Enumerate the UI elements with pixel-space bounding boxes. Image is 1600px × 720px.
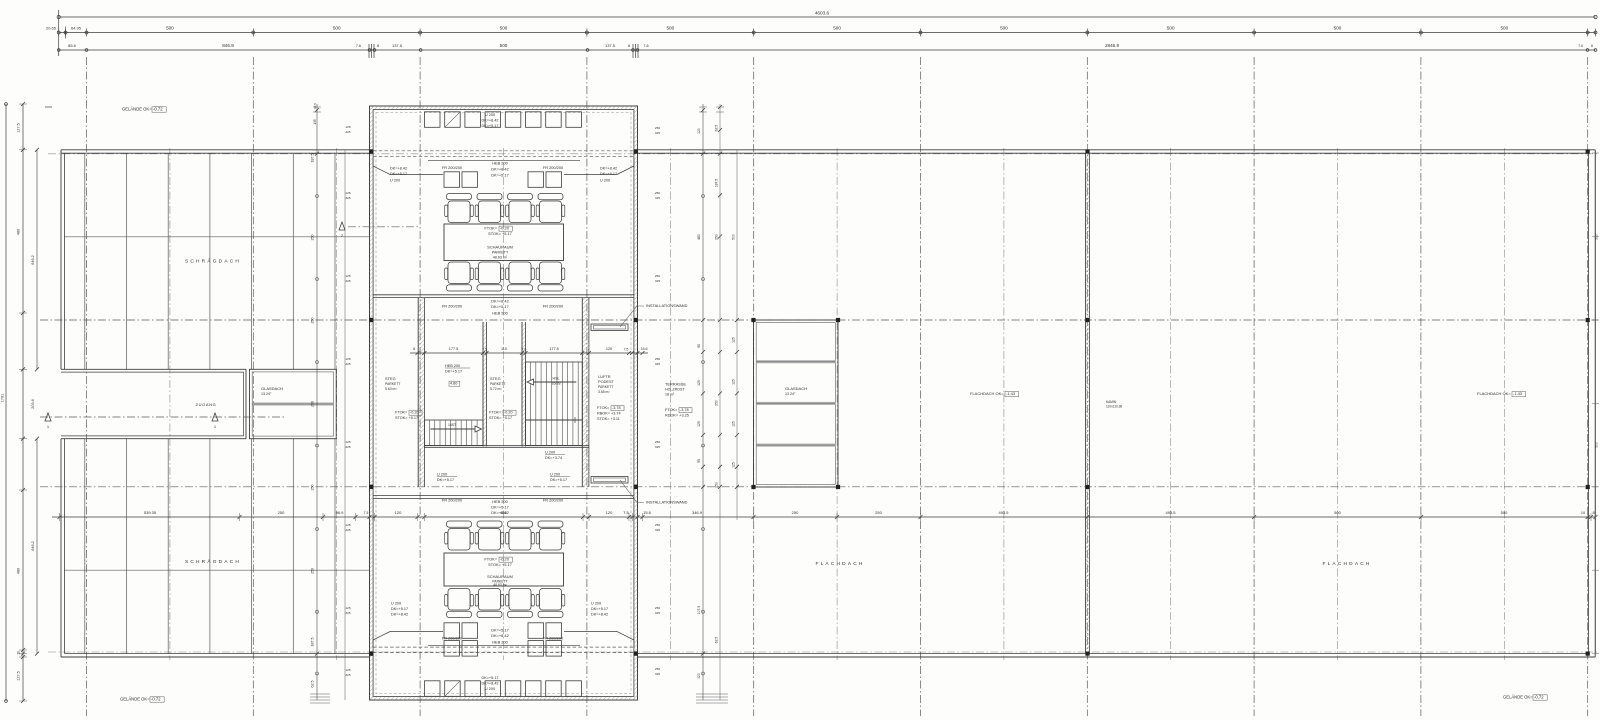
svg-text:SCHAURAUM: SCHAURAUM	[487, 245, 513, 250]
svg-text:-1.43: -1.43	[1513, 391, 1523, 396]
svg-text:7.6: 7.6	[1578, 44, 1583, 48]
svg-text:500: 500	[500, 26, 508, 31]
svg-text:325: 325	[655, 131, 660, 135]
svg-text:250: 250	[655, 606, 660, 610]
svg-text:125: 125	[697, 380, 701, 386]
svg-text:DK=+8.42: DK=+8.42	[491, 299, 509, 304]
svg-text:TERRASSE: TERRASSE	[665, 382, 686, 387]
svg-text:GLASDACH: GLASDACH	[261, 386, 283, 391]
svg-text:125: 125	[345, 125, 350, 129]
svg-text:62.5: 62.5	[313, 103, 317, 109]
svg-text:250: 250	[655, 274, 660, 278]
svg-text:177.5: 177.5	[449, 347, 459, 351]
svg-text:250: 250	[311, 318, 315, 324]
svg-text:DK=+5.17: DK=+5.17	[491, 505, 509, 510]
svg-text:325: 325	[655, 279, 660, 283]
svg-text:250: 250	[311, 568, 315, 574]
svg-text:3.65 m²: 3.65 m²	[598, 390, 610, 394]
svg-text:FR 200/200: FR 200/200	[543, 498, 564, 503]
svg-text:-0.20: -0.20	[500, 557, 510, 562]
svg-text:HOLZROST: HOLZROST	[665, 388, 685, 392]
svg-text:PARKETT: PARKETT	[492, 251, 509, 255]
svg-text:203.6: 203.6	[31, 399, 35, 409]
svg-text:DK=+3.74: DK=+3.74	[545, 456, 562, 460]
svg-text:500: 500	[333, 26, 341, 31]
svg-text:8: 8	[413, 347, 415, 351]
svg-text:8: 8	[628, 44, 630, 48]
svg-text:125: 125	[732, 462, 736, 468]
svg-text:120: 120	[697, 128, 701, 134]
svg-text:-0.20: -0.20	[500, 226, 510, 231]
svg-text:STEG: STEG	[385, 376, 396, 381]
svg-text:GELÄNDE OK=: GELÄNDE OK=	[1503, 695, 1533, 700]
svg-text:HEB 200: HEB 200	[492, 161, 508, 166]
svg-text:FLACHDACH: FLACHDACH	[1322, 561, 1371, 567]
svg-text:FR 200/200: FR 200/200	[442, 498, 463, 503]
svg-text:14ST: 14ST	[448, 423, 456, 427]
svg-text:FLACHDACH: FLACHDACH	[815, 561, 864, 567]
svg-text:DK=+8.42: DK=+8.42	[481, 119, 498, 123]
svg-text:325: 325	[655, 196, 660, 200]
svg-text:HEB 200: HEB 200	[492, 311, 508, 316]
svg-text:4.80: 4.80	[450, 382, 457, 386]
svg-text:187.5: 187.5	[311, 638, 315, 647]
svg-text:539.35: 539.35	[144, 510, 157, 515]
svg-text:FTOK=: FTOK=	[597, 406, 610, 410]
svg-text:62.5: 62.5	[715, 637, 719, 644]
svg-text:PODEST: PODEST	[598, 379, 615, 384]
svg-text:STEG: STEG	[490, 376, 501, 381]
svg-text:125: 125	[732, 379, 736, 385]
svg-text:110: 110	[501, 347, 507, 351]
svg-text:125: 125	[345, 357, 350, 361]
svg-text:DK=+8.42: DK=+8.42	[491, 167, 509, 172]
svg-text:U 200: U 200	[391, 602, 401, 606]
svg-text:500: 500	[666, 26, 674, 31]
svg-text:DK=+5.17: DK=+5.17	[391, 607, 408, 611]
svg-text:135: 135	[313, 119, 317, 125]
svg-text:500: 500	[1501, 510, 1508, 515]
svg-text:DK=+5.17: DK=+5.17	[390, 172, 407, 176]
svg-text:GELÄNDE OK=: GELÄNDE OK=	[120, 697, 150, 702]
svg-text:325: 325	[345, 673, 350, 677]
svg-text:500: 500	[1334, 510, 1341, 515]
svg-text:DK=+5.17: DK=+5.17	[491, 173, 509, 178]
svg-text:137.5: 137.5	[605, 43, 616, 48]
svg-text:FLACHDACH OK=: FLACHDACH OK=	[1477, 391, 1511, 396]
svg-text:FR 200/200: FR 200/200	[543, 636, 564, 641]
svg-text:480: 480	[697, 234, 701, 240]
svg-text:FR 200/200: FR 200/200	[543, 165, 564, 170]
svg-text:120: 120	[395, 510, 402, 515]
svg-text:DK=+5.17: DK=+5.17	[491, 628, 509, 633]
svg-text:137.5: 137.5	[392, 43, 403, 48]
svg-text:500: 500	[500, 43, 508, 48]
svg-text:62.5: 62.5	[715, 125, 719, 132]
svg-text:DK=+5.17: DK=+5.17	[445, 370, 462, 374]
svg-text:15.6: 15.6	[641, 347, 648, 351]
svg-text:500: 500	[1334, 26, 1342, 31]
svg-text:325: 325	[655, 611, 660, 615]
svg-text:325: 325	[655, 362, 660, 366]
svg-text:96.9: 96.9	[336, 510, 345, 515]
svg-text:107.5: 107.5	[697, 606, 701, 615]
svg-text:127.5: 127.5	[17, 671, 21, 681]
svg-text:7.5: 7.5	[522, 348, 527, 352]
svg-text:KAMIN: KAMIN	[1106, 400, 1117, 404]
svg-text:U 200: U 200	[485, 687, 495, 691]
svg-text:HEB 200: HEB 200	[445, 364, 460, 368]
svg-text:FTOK=: FTOK=	[484, 226, 497, 231]
svg-text:325: 325	[345, 196, 350, 200]
svg-text:250: 250	[655, 191, 660, 195]
svg-text:62.5: 62.5	[311, 681, 315, 688]
svg-text:846.9: 846.9	[222, 43, 234, 48]
svg-text:125: 125	[345, 668, 350, 672]
svg-text:-0.20: -0.20	[410, 411, 419, 415]
svg-text:250: 250	[655, 357, 660, 361]
svg-text:493.5: 493.5	[1165, 510, 1176, 515]
svg-text:500: 500	[732, 234, 736, 240]
svg-text:250: 250	[311, 235, 315, 241]
svg-text:325: 325	[345, 130, 350, 134]
svg-text:480: 480	[500, 510, 507, 515]
svg-text:13.24°: 13.24°	[785, 392, 796, 396]
svg-text:STOK= +5.17: STOK= +5.17	[488, 562, 512, 567]
svg-text:125: 125	[345, 440, 350, 444]
svg-text:SCHRÄGDACH: SCHRÄGDACH	[185, 558, 241, 565]
svg-text:INSTALLATIONSWAND: INSTALLATIONSWAND	[646, 500, 688, 505]
svg-text:U 200: U 200	[591, 602, 601, 606]
svg-text:7.5: 7.5	[624, 348, 629, 352]
svg-text:177.5: 177.5	[549, 347, 559, 351]
svg-text:GLASDACH: GLASDACH	[785, 386, 807, 391]
svg-text:8: 8	[377, 44, 379, 48]
svg-text:120: 120	[606, 510, 613, 515]
svg-text:500: 500	[1595, 234, 1599, 240]
svg-text:SCHRÄGDACH: SCHRÄGDACH	[185, 258, 241, 265]
svg-text:127.5: 127.5	[17, 123, 21, 133]
svg-text:120: 120	[697, 673, 701, 679]
svg-text:120: 120	[606, 347, 612, 351]
svg-text:RBOK= +3.74: RBOK= +3.74	[597, 412, 621, 416]
svg-text:500: 500	[1000, 26, 1008, 31]
svg-text:480: 480	[17, 568, 21, 574]
svg-text:325: 325	[345, 528, 350, 532]
svg-text:250: 250	[311, 485, 315, 491]
svg-text:500: 500	[833, 26, 841, 31]
svg-text:-0.72: -0.72	[153, 107, 163, 112]
svg-text:10: 10	[17, 651, 21, 655]
svg-text:500: 500	[1595, 442, 1599, 448]
svg-text:325: 325	[345, 611, 350, 615]
svg-text:PARKETT: PARKETT	[490, 382, 505, 386]
svg-text:FLACHDACH OK=: FLACHDACH OK=	[970, 391, 1004, 396]
svg-text:250: 250	[715, 234, 719, 240]
svg-text:U 200: U 200	[550, 473, 560, 477]
svg-text:1791: 1791	[1, 394, 5, 402]
svg-text:5.72 m²: 5.72 m²	[490, 387, 502, 391]
svg-text:PARKETT: PARKETT	[598, 385, 613, 389]
svg-text:7.6: 7.6	[643, 44, 648, 48]
svg-text:DK=+5.17: DK=+5.17	[491, 304, 509, 309]
svg-text:FR 200/200: FR 200/200	[442, 636, 463, 641]
svg-text:187.5: 187.5	[715, 179, 719, 188]
svg-text:7.5: 7.5	[364, 511, 369, 515]
svg-text:DK=+8.42: DK=+8.42	[591, 613, 608, 617]
svg-text:325: 325	[345, 445, 350, 449]
svg-text:325: 325	[345, 362, 350, 366]
svg-text:480: 480	[17, 229, 21, 235]
svg-text:250: 250	[792, 510, 799, 515]
svg-text:STOK= +3.11: STOK= +3.11	[597, 417, 620, 421]
svg-text:250: 250	[715, 400, 719, 406]
svg-text:250: 250	[655, 440, 660, 444]
svg-text:13.24°: 13.24°	[261, 392, 272, 396]
svg-text:125: 125	[345, 606, 350, 610]
svg-text:20.65: 20.65	[46, 26, 57, 31]
svg-text:7.5: 7.5	[482, 348, 487, 352]
svg-text:250: 250	[875, 510, 882, 515]
svg-text:ZUGANG: ZUGANG	[196, 402, 217, 407]
svg-text:DK=+5.17: DK=+5.17	[437, 478, 454, 482]
svg-text:-0.72: -0.72	[1534, 695, 1544, 700]
svg-text:4603.6: 4603.6	[815, 11, 830, 16]
svg-text:FTOK=: FTOK=	[484, 557, 497, 562]
svg-text:DK=+8.42: DK=+8.42	[600, 167, 617, 171]
svg-text:7.5: 7.5	[623, 510, 629, 515]
svg-text:250: 250	[715, 482, 719, 488]
svg-text:250: 250	[655, 667, 660, 671]
svg-text:325: 325	[655, 672, 660, 676]
svg-text:FTOK=: FTOK=	[489, 411, 502, 415]
svg-text:HSL: HSL	[553, 377, 560, 381]
svg-text:125: 125	[732, 337, 736, 343]
svg-text:500: 500	[1500, 26, 1508, 31]
svg-text:125: 125	[345, 523, 350, 527]
svg-text:346.9: 346.9	[692, 510, 703, 515]
svg-text:95: 95	[697, 344, 701, 348]
svg-text:HEB 200: HEB 200	[492, 499, 508, 504]
svg-text:GELÄNDE OK=: GELÄNDE OK=	[122, 107, 152, 112]
svg-text:U 200: U 200	[390, 179, 400, 183]
svg-text:325: 325	[655, 528, 660, 532]
svg-text:-3.78: -3.78	[612, 406, 621, 410]
svg-text:2846.9: 2846.9	[1105, 43, 1119, 48]
svg-text:STOK= +5.17: STOK= +5.17	[488, 231, 512, 236]
svg-text:187.5: 187.5	[311, 154, 315, 163]
svg-text:SCHAURAUM: SCHAURAUM	[487, 574, 513, 579]
svg-text:-0.20: -0.20	[504, 411, 513, 415]
svg-text:48.63 m²: 48.63 m²	[493, 256, 508, 260]
svg-text:250: 250	[311, 401, 315, 407]
svg-text:DK=+5.17: DK=+5.17	[481, 124, 498, 128]
svg-text:DK=+5.17: DK=+5.17	[600, 172, 617, 176]
svg-text:64.95: 64.95	[71, 26, 82, 31]
svg-text:125: 125	[345, 274, 350, 278]
svg-text:U 200: U 200	[545, 451, 555, 455]
svg-text:85.6: 85.6	[68, 43, 77, 48]
svg-text:125: 125	[345, 191, 350, 195]
svg-text:250: 250	[655, 126, 660, 130]
svg-text:RDOK= +3.25: RDOK= +3.25	[665, 414, 689, 418]
svg-text:FR 200/200: FR 200/200	[442, 165, 463, 170]
svg-text:5.63 m²: 5.63 m²	[385, 387, 397, 391]
svg-text:8: 8	[1592, 511, 1594, 515]
svg-text:U 200: U 200	[485, 113, 495, 117]
svg-text:325: 325	[345, 279, 350, 283]
svg-text:48.63 m²: 48.63 m²	[493, 583, 507, 587]
svg-text:PARKETT: PARKETT	[385, 382, 400, 386]
svg-text:FR 200/200: FR 200/200	[543, 304, 564, 309]
svg-text:18 m²: 18 m²	[665, 393, 675, 397]
svg-text:125: 125	[732, 421, 736, 427]
svg-text:FTOK=: FTOK=	[395, 411, 408, 415]
svg-text:DK=+5.17: DK=+5.17	[481, 676, 498, 680]
svg-text:646.2: 646.2	[31, 541, 35, 551]
svg-text:-1.43: -1.43	[1006, 391, 1016, 396]
svg-text:DK=+5.17: DK=+5.17	[550, 478, 567, 482]
svg-text:250: 250	[278, 510, 285, 515]
svg-text:DK=+5.17: DK=+5.17	[591, 607, 608, 611]
svg-text:FTOK=: FTOK=	[665, 408, 678, 412]
svg-text:500: 500	[166, 26, 174, 31]
svg-text:DK=+8.42: DK=+8.42	[491, 633, 509, 638]
svg-text:646.2: 646.2	[31, 255, 35, 265]
svg-text:-0.72: -0.72	[151, 697, 161, 702]
svg-text:95: 95	[697, 459, 701, 463]
svg-text:STOK= +5.17: STOK= +5.17	[395, 416, 418, 420]
svg-text:HEB 200: HEB 200	[492, 640, 508, 645]
svg-text:15.6: 15.6	[643, 510, 652, 515]
svg-text:493.5: 493.5	[998, 510, 1009, 515]
svg-text:DK=+8.42: DK=+8.42	[391, 613, 408, 617]
svg-text:250: 250	[655, 523, 660, 527]
svg-text:-3.78: -3.78	[680, 408, 689, 412]
svg-text:DK=+8.42: DK=+8.42	[481, 682, 498, 686]
svg-text:325: 325	[655, 445, 660, 449]
svg-text:500: 500	[1167, 26, 1175, 31]
svg-text:110x110.38: 110x110.38	[1106, 405, 1122, 409]
svg-text:125: 125	[697, 421, 701, 427]
svg-text:STOK= +5.17: STOK= +5.17	[489, 416, 512, 420]
svg-text:16/28: 16/28	[552, 382, 561, 386]
svg-text:10: 10	[1581, 511, 1585, 515]
svg-text:8: 8	[1591, 44, 1593, 48]
svg-text:U 200: U 200	[437, 473, 447, 477]
svg-text:DK=+8.42: DK=+8.42	[390, 167, 407, 171]
svg-text:7.6: 7.6	[356, 44, 361, 48]
svg-text:INSTALLATIONSWAND: INSTALLATIONSWAND	[646, 303, 688, 308]
svg-text:U 200: U 200	[600, 179, 610, 183]
svg-text:FR 200/200: FR 200/200	[442, 304, 463, 309]
